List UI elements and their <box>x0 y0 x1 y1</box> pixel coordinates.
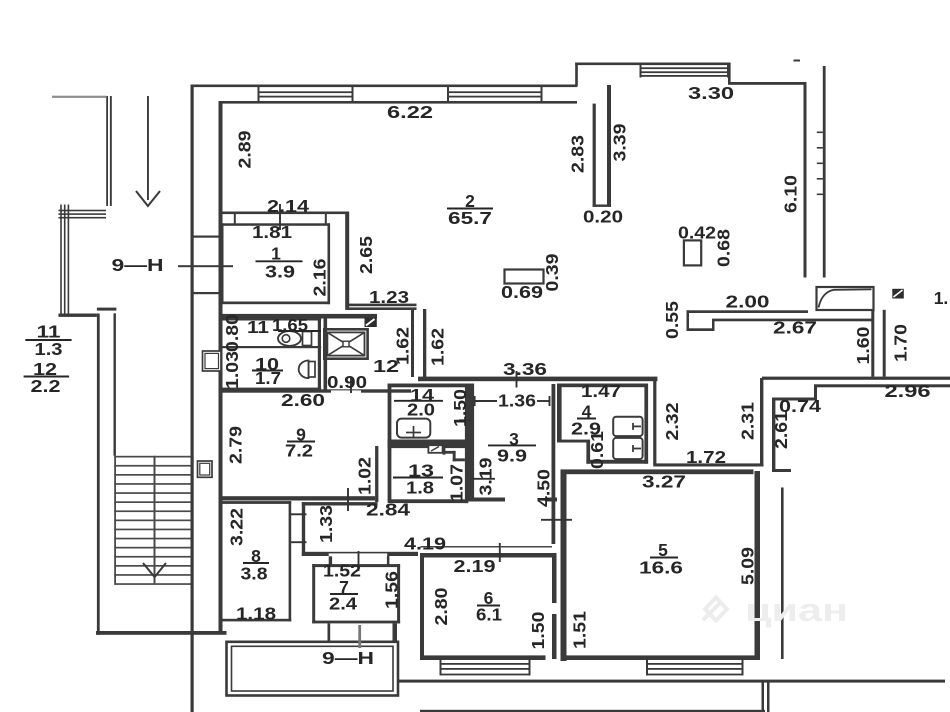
svg-text:2.83: 2.83 <box>567 135 587 173</box>
svg-text:9.9: 9.9 <box>497 445 527 465</box>
svg-text:1.62: 1.62 <box>392 327 412 365</box>
svg-text:9—Н: 9—Н <box>322 648 374 668</box>
svg-text:2.65: 2.65 <box>356 236 376 274</box>
svg-text:4.19: 4.19 <box>404 533 446 553</box>
svg-text:1.: 1. <box>934 288 949 308</box>
svg-text:1.50: 1.50 <box>450 389 470 427</box>
svg-text:1.36: 1.36 <box>498 390 536 410</box>
svg-text:0.42: 0.42 <box>678 222 716 242</box>
svg-text:1.02: 1.02 <box>354 457 374 495</box>
svg-text:2.60: 2.60 <box>281 390 325 410</box>
svg-text:9—Н: 9—Н <box>112 255 164 275</box>
svg-text:0.39: 0.39 <box>542 253 562 291</box>
svg-text:1.47: 1.47 <box>581 381 621 401</box>
svg-text:2.14: 2.14 <box>267 196 309 216</box>
svg-text:3.9: 3.9 <box>265 261 295 281</box>
svg-text:1.50: 1.50 <box>528 611 548 649</box>
svg-text:1.70: 1.70 <box>890 324 910 362</box>
svg-text:1.03: 1.03 <box>222 351 242 389</box>
svg-text:2.00: 2.00 <box>726 291 770 311</box>
svg-text:циан: циан <box>745 592 848 628</box>
svg-text:6.1: 6.1 <box>476 604 502 624</box>
svg-text:2.61: 2.61 <box>771 411 791 449</box>
svg-text:1: 1 <box>271 243 281 263</box>
svg-text:2.79: 2.79 <box>225 426 245 464</box>
svg-text:1.7: 1.7 <box>255 368 281 388</box>
svg-text:2.67: 2.67 <box>773 317 817 337</box>
svg-text:3.39: 3.39 <box>609 123 629 161</box>
svg-text:3.22: 3.22 <box>226 508 246 546</box>
svg-text:3.27: 3.27 <box>642 471 686 491</box>
svg-text:1.51: 1.51 <box>569 611 589 649</box>
svg-text:0.61: 0.61 <box>587 431 607 469</box>
svg-text:65.7: 65.7 <box>448 208 492 228</box>
svg-text:0.69: 0.69 <box>501 282 543 302</box>
svg-text:2.4: 2.4 <box>329 593 357 613</box>
svg-text:16.6: 16.6 <box>639 557 683 577</box>
svg-text:5.09: 5.09 <box>737 547 757 585</box>
svg-text:4.50: 4.50 <box>533 469 553 507</box>
svg-text:0.55: 0.55 <box>662 301 682 339</box>
svg-text:1.60: 1.60 <box>853 326 873 364</box>
svg-text:2.16: 2.16 <box>309 258 329 296</box>
svg-text:2.31: 2.31 <box>737 402 757 440</box>
svg-text:1.65: 1.65 <box>272 315 308 335</box>
svg-text:1.33: 1.33 <box>316 505 336 543</box>
svg-text:3.8: 3.8 <box>241 563 268 583</box>
svg-text:0.90: 0.90 <box>327 372 367 392</box>
svg-text:7.2: 7.2 <box>285 440 313 460</box>
svg-text:2.80: 2.80 <box>431 587 451 625</box>
svg-text:2.89: 2.89 <box>234 130 254 168</box>
svg-text:3.19: 3.19 <box>475 457 495 495</box>
svg-text:1.72: 1.72 <box>686 447 726 467</box>
svg-text:1.62: 1.62 <box>427 328 447 366</box>
svg-text:0.80: 0.80 <box>222 314 242 352</box>
svg-text:6.10: 6.10 <box>780 175 800 213</box>
svg-text:2.84: 2.84 <box>366 499 410 519</box>
svg-text:1.3: 1.3 <box>35 339 63 359</box>
svg-text:11: 11 <box>247 317 269 337</box>
svg-text:3.36: 3.36 <box>503 359 547 379</box>
svg-text:2.19: 2.19 <box>454 556 496 576</box>
svg-text:2.32: 2.32 <box>662 402 682 440</box>
svg-text:2.0: 2.0 <box>407 399 435 419</box>
svg-text:2.96: 2.96 <box>885 381 931 401</box>
svg-text:1.07: 1.07 <box>446 464 466 502</box>
svg-text:2.2: 2.2 <box>31 376 61 396</box>
svg-text:0.68: 0.68 <box>713 229 733 267</box>
svg-text:0.20: 0.20 <box>583 206 623 226</box>
svg-text:3.30: 3.30 <box>688 83 734 103</box>
svg-text:6.22: 6.22 <box>387 102 433 122</box>
svg-text:1.8: 1.8 <box>406 477 434 497</box>
svg-text:1.56: 1.56 <box>381 571 401 609</box>
svg-text:1.81: 1.81 <box>252 222 292 242</box>
svg-text:1.23: 1.23 <box>369 287 409 307</box>
svg-text:1.18: 1.18 <box>236 603 276 623</box>
